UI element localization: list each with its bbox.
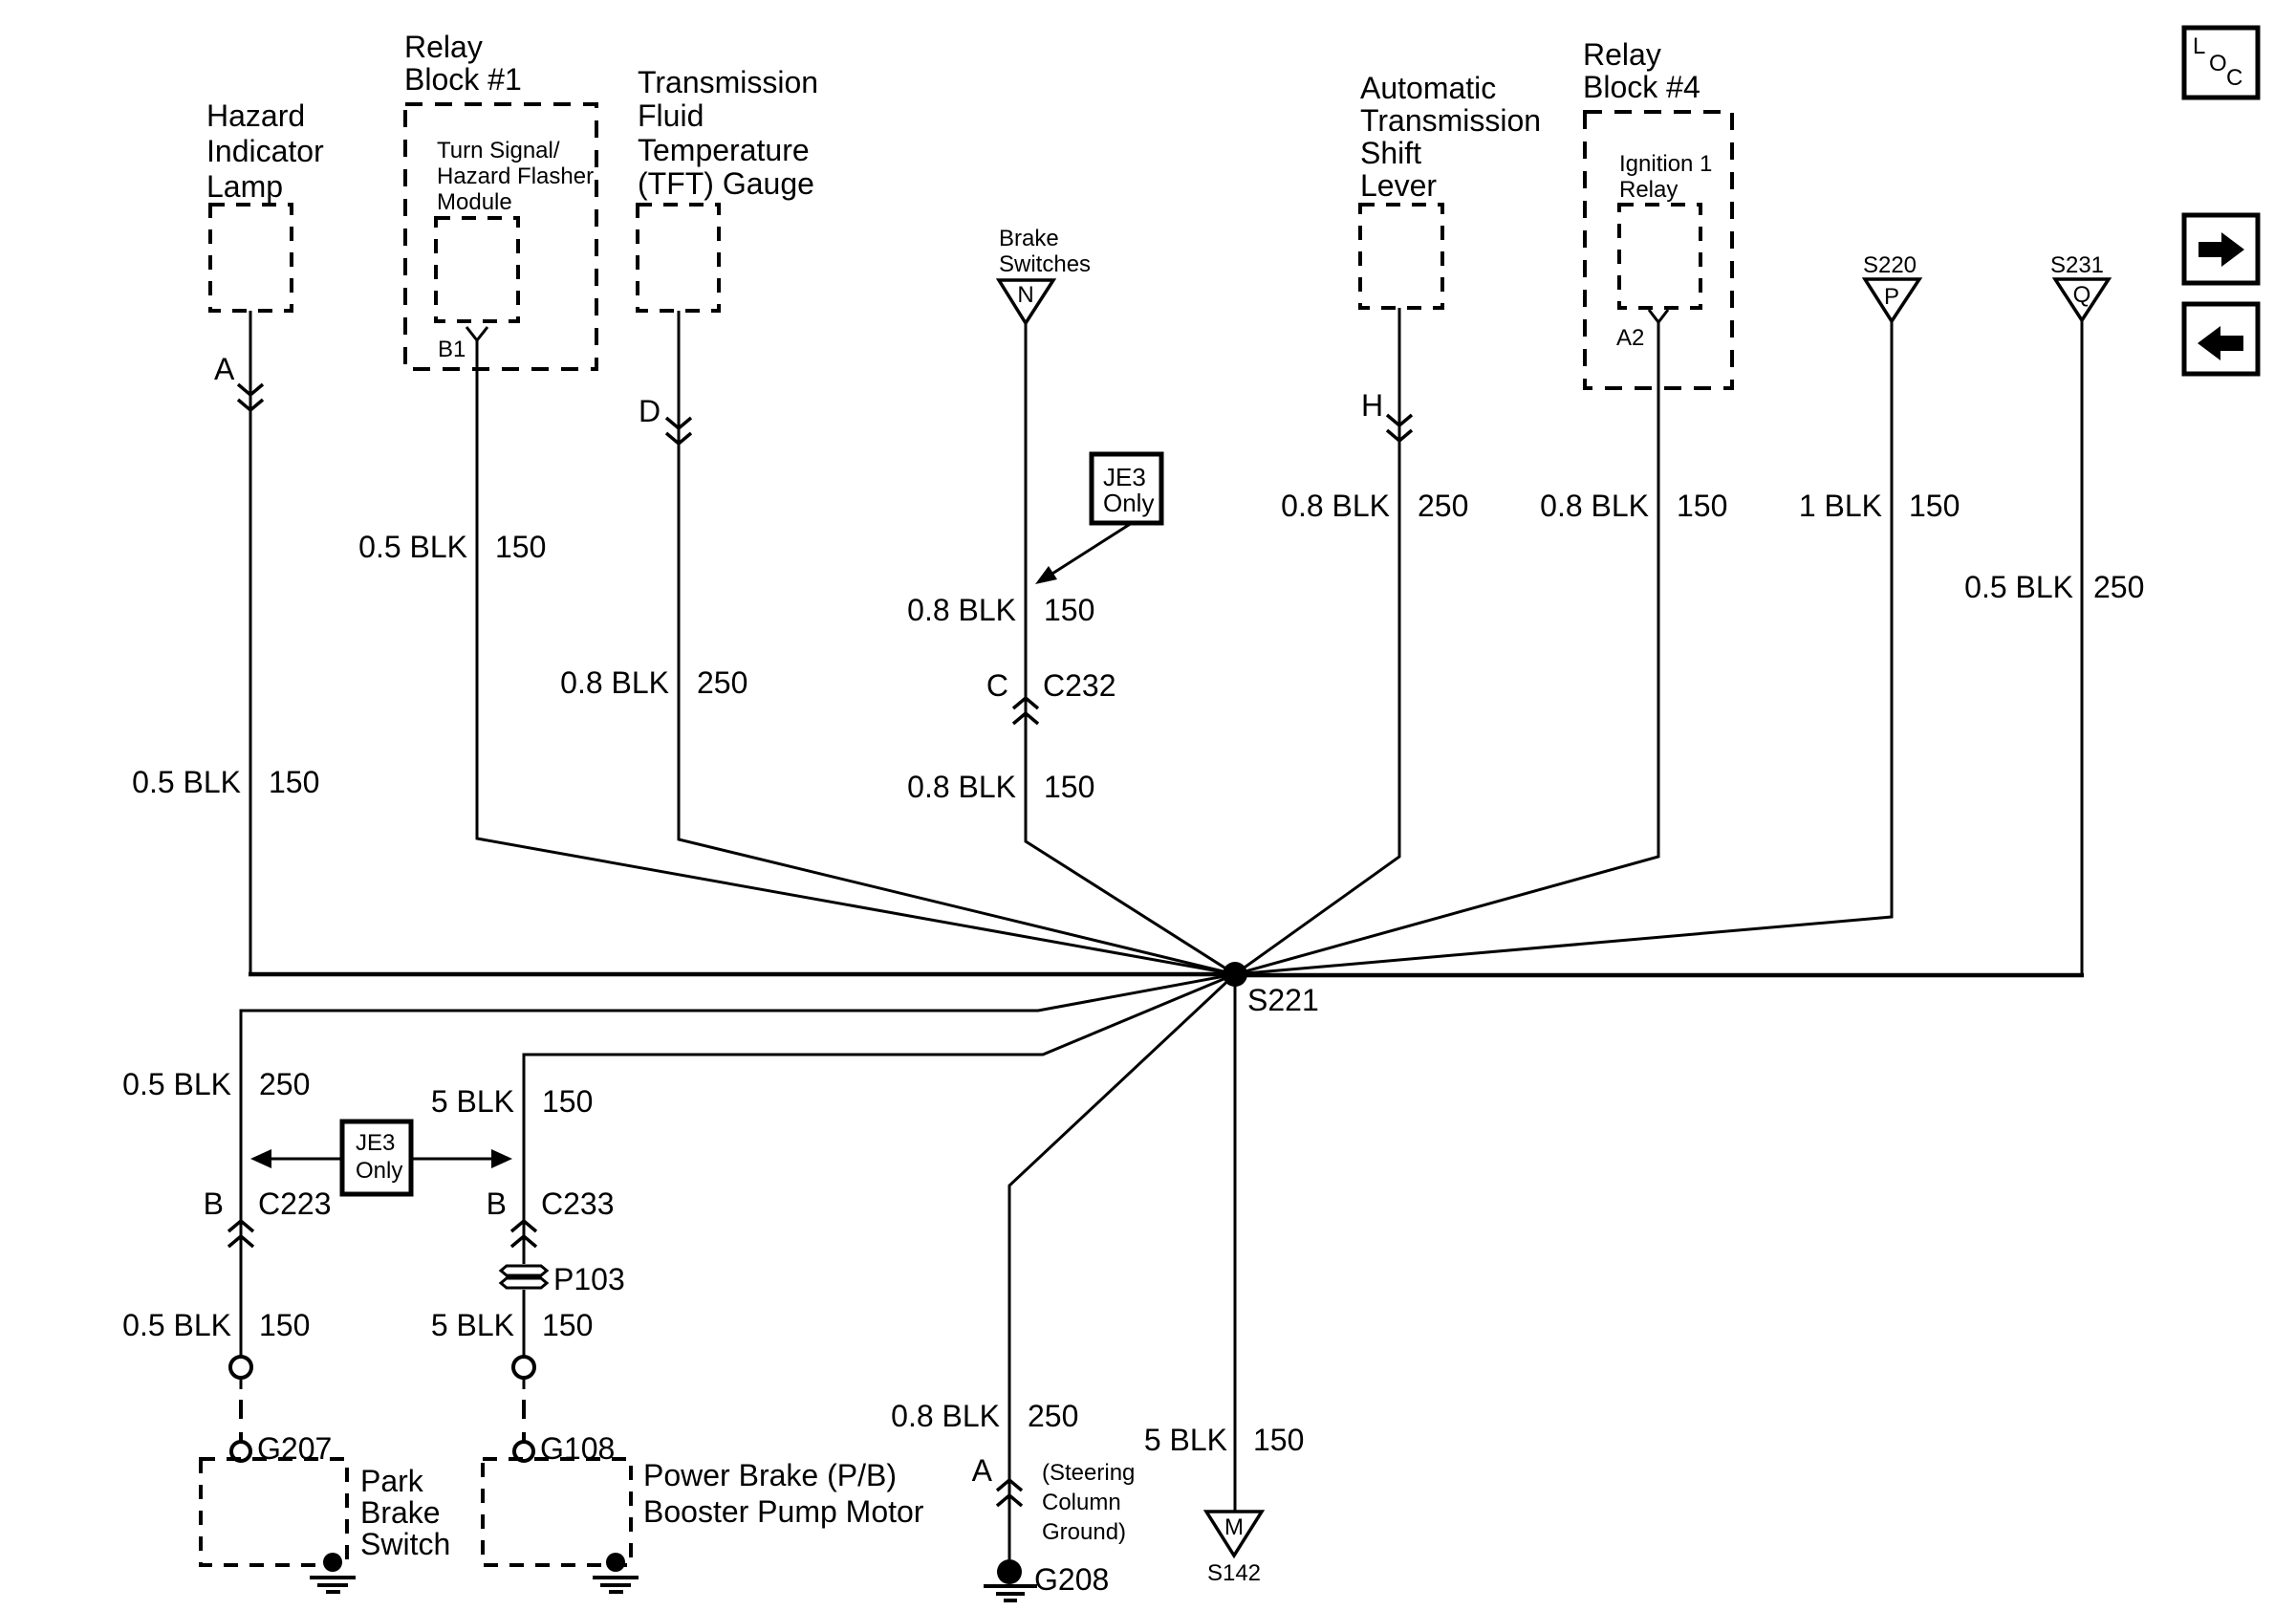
brake switches label <box>999 226 1091 277</box>
wire label 0.5 BLK 150 B1 <box>358 530 546 564</box>
svg-text:Transmission: Transmission <box>638 65 818 99</box>
svg-text:250: 250 <box>259 1067 310 1101</box>
svg-text:Transmission: Transmission <box>1360 103 1541 138</box>
svg-text:1 BLK: 1 BLK <box>1799 489 1882 523</box>
svg-text:Relay: Relay <box>404 30 483 64</box>
terminal circle C223 <box>230 1357 251 1378</box>
connector D marker <box>666 418 691 444</box>
svg-text:G208: G208 <box>1034 1562 1109 1597</box>
svg-text:C: C <box>2226 65 2242 91</box>
svg-text:B: B <box>204 1186 224 1221</box>
connector H marker <box>1387 415 1412 441</box>
JE3 double arrow <box>250 1149 512 1168</box>
connector C223 <box>204 1186 332 1247</box>
wire label 0.8 BLK 150 brake upper <box>907 593 1094 627</box>
svg-text:Block #4: Block #4 <box>1583 70 1700 104</box>
svg-text:0.8 BLK: 0.8 BLK <box>1540 489 1649 523</box>
svg-text:Relay: Relay <box>1619 177 1678 203</box>
JE3 only box upper <box>1092 454 1161 523</box>
wire S221 to S142 <box>1234 974 1237 1513</box>
svg-text:Lamp: Lamp <box>206 169 283 204</box>
svg-text:S220: S220 <box>1863 252 1917 278</box>
svg-text:G207: G207 <box>257 1431 332 1466</box>
triangle P <box>1865 279 1919 321</box>
connector C233 <box>487 1186 615 1247</box>
svg-text:Switch: Switch <box>360 1527 450 1561</box>
triangle N <box>999 280 1053 323</box>
wire label 0.8 BLK 150 relay4 <box>1540 489 1727 523</box>
wire label 0.8 BLK 250 shift <box>1281 489 1468 523</box>
svg-text:0.5 BLK: 0.5 BLK <box>132 765 241 799</box>
svg-text:0.8 BLK: 0.8 BLK <box>1281 489 1390 523</box>
svg-text:Module: Module <box>437 189 512 215</box>
left arrow box <box>2184 304 2258 374</box>
triangle Q <box>2055 279 2109 320</box>
terminal circle G207 <box>231 1442 250 1461</box>
wire label 5 BLK 150 S142 <box>1144 1423 1305 1457</box>
terminal circle G108 <box>514 1442 533 1461</box>
park brake switch label <box>360 1464 450 1561</box>
pin B1 terminal <box>466 327 487 340</box>
connector A marker <box>238 384 263 410</box>
svg-text:L: L <box>2193 33 2205 59</box>
wire S221 to steering column ground <box>1009 974 1235 1559</box>
wire S221 to C223 chain <box>241 974 1235 1357</box>
shift lever title <box>1360 71 1541 203</box>
svg-text:M: M <box>1224 1514 1244 1540</box>
svg-text:P103: P103 <box>553 1262 625 1296</box>
svg-text:Block #1: Block #1 <box>404 62 522 97</box>
ground power brake <box>593 1553 639 1592</box>
svg-text:0.8 BLK: 0.8 BLK <box>560 665 669 700</box>
svg-text:0.5 BLK: 0.5 BLK <box>358 530 467 564</box>
JE3 arrow <box>1035 523 1132 584</box>
pin A2 terminal <box>1649 310 1668 322</box>
svg-text:Only: Only <box>1103 489 1154 517</box>
svg-text:Relay: Relay <box>1583 37 1661 72</box>
svg-text:B: B <box>487 1186 507 1221</box>
svg-text:Brake: Brake <box>360 1495 441 1530</box>
svg-text:C223: C223 <box>258 1186 332 1221</box>
wire label 0.5 BLK 150 hazard <box>132 765 319 799</box>
svg-text:Hazard: Hazard <box>206 98 305 133</box>
svg-text:Turn Signal/: Turn Signal/ <box>437 138 560 163</box>
wire hazard lamp down <box>249 311 252 974</box>
stub and dashed wire to G207 <box>240 1378 243 1389</box>
connector A steering marker <box>997 1480 1022 1506</box>
wire P to S221 <box>1235 321 1892 974</box>
svg-text:C: C <box>986 668 1008 703</box>
svg-text:Power Brake (P/B): Power Brake (P/B) <box>643 1458 897 1492</box>
svg-text:O: O <box>2209 51 2227 76</box>
svg-text:5 BLK: 5 BLK <box>431 1308 514 1342</box>
svg-text:5 BLK: 5 BLK <box>431 1084 514 1119</box>
turn signal module box <box>436 218 518 321</box>
svg-text:A: A <box>972 1453 993 1488</box>
wire N to S221 <box>1026 323 1235 974</box>
steering column ground note <box>1042 1460 1135 1545</box>
svg-text:Only: Only <box>356 1158 402 1184</box>
svg-text:Lever: Lever <box>1360 168 1437 203</box>
wire S221 to C233 chain <box>524 974 1235 1357</box>
wire main horizontal right to S221 <box>1235 973 2084 978</box>
ground G208 <box>984 1559 1037 1600</box>
wire D to S221 <box>679 311 1235 974</box>
svg-text:250: 250 <box>697 665 747 700</box>
wire label 0.8 BLK 250 steering <box>891 1399 1078 1433</box>
svg-text:Hazard Flasher: Hazard Flasher <box>437 163 594 189</box>
svg-text:150: 150 <box>542 1308 593 1342</box>
svg-text:A: A <box>214 352 235 386</box>
ignition relay box <box>1619 205 1700 308</box>
svg-text:0.8 BLK: 0.8 BLK <box>907 593 1016 627</box>
svg-text:(Steering: (Steering <box>1042 1460 1135 1486</box>
svg-text:N: N <box>1017 282 1033 308</box>
svg-text:Ignition 1: Ignition 1 <box>1619 151 1712 177</box>
svg-text:Temperature: Temperature <box>638 133 810 167</box>
power brake booster box <box>483 1459 631 1565</box>
junction S221 <box>1223 962 1319 1017</box>
right arrow box <box>2184 215 2258 283</box>
svg-text:C232: C232 <box>1043 668 1116 703</box>
svg-text:JE3: JE3 <box>356 1130 395 1156</box>
svg-text:H: H <box>1361 388 1383 423</box>
svg-text:Q: Q <box>2073 282 2091 308</box>
svg-text:0.5 BLK: 0.5 BLK <box>122 1067 231 1101</box>
power brake booster label <box>643 1458 924 1529</box>
ignition 1 relay label <box>1619 151 1712 203</box>
svg-text:S221: S221 <box>1247 983 1319 1017</box>
wire label 5 BLK 150 C233 <box>431 1084 594 1119</box>
svg-text:150: 150 <box>1253 1423 1304 1457</box>
relay block 4 outer box <box>1585 112 1732 388</box>
svg-text:C233: C233 <box>541 1186 615 1221</box>
wire label 0.5 BLK 250 C223 <box>122 1067 310 1101</box>
svg-text:JE3: JE3 <box>1103 463 1146 491</box>
svg-text:A2: A2 <box>1616 325 1644 351</box>
svg-text:5 BLK: 5 BLK <box>1144 1423 1227 1457</box>
svg-text:150: 150 <box>495 530 546 564</box>
svg-text:250: 250 <box>1418 489 1468 523</box>
JE3 only box lower <box>342 1121 411 1194</box>
svg-text:Switches: Switches <box>999 251 1091 277</box>
svg-text:150: 150 <box>1044 770 1094 804</box>
svg-text:Indicator: Indicator <box>206 134 324 168</box>
svg-text:Fluid: Fluid <box>638 98 704 133</box>
svg-text:S142: S142 <box>1207 1560 1261 1586</box>
svg-text:Column: Column <box>1042 1490 1121 1515</box>
wire label 0.5 BLK 250 Q <box>1964 570 2144 604</box>
svg-text:150: 150 <box>542 1084 593 1119</box>
wire A2 to S221 <box>1235 322 1658 974</box>
svg-text:0.8 BLK: 0.8 BLK <box>907 770 1016 804</box>
svg-text:0.8 BLK: 0.8 BLK <box>891 1399 1000 1433</box>
stub and dashed wire to G108 <box>523 1378 526 1389</box>
svg-text:250: 250 <box>2093 570 2144 604</box>
svg-text:150: 150 <box>269 765 319 799</box>
relay block 1 title <box>404 30 522 97</box>
svg-text:Brake: Brake <box>999 226 1059 251</box>
park brake switch box <box>201 1459 347 1565</box>
wire Q down <box>2081 320 2084 973</box>
svg-text:150: 150 <box>1909 489 1960 523</box>
wire label 0.8 BLK 150 brake lower <box>907 770 1094 804</box>
svg-text:S231: S231 <box>2050 252 2104 278</box>
hazard indicator lamp box <box>210 205 292 311</box>
turn signal hazard flasher module label <box>437 138 594 215</box>
svg-text:(TFT) Gauge: (TFT) Gauge <box>638 166 814 201</box>
relay block 1 outer box <box>405 104 596 369</box>
wire label 1 BLK 150 <box>1799 489 1960 523</box>
connector C232 <box>986 668 1116 724</box>
shift lever box <box>1360 205 1442 308</box>
svg-text:150: 150 <box>259 1308 310 1342</box>
svg-text:G108: G108 <box>540 1431 615 1466</box>
ground park brake <box>310 1553 356 1592</box>
svg-text:Park: Park <box>360 1464 424 1498</box>
svg-text:Ground): Ground) <box>1042 1519 1126 1545</box>
svg-text:250: 250 <box>1028 1399 1078 1433</box>
svg-text:0.5 BLK: 0.5 BLK <box>122 1308 231 1342</box>
triangle M <box>1206 1512 1262 1556</box>
TFT gauge box <box>638 205 719 311</box>
wire label 0.8 BLK 250 TFT <box>560 665 747 700</box>
svg-text:150: 150 <box>1044 593 1094 627</box>
hazard indicator lamp label <box>206 98 324 204</box>
terminal circle C233 <box>513 1357 534 1378</box>
svg-text:D: D <box>639 394 661 428</box>
pass-through grommet P103 <box>501 1262 625 1296</box>
svg-text:0.5 BLK: 0.5 BLK <box>1964 570 2073 604</box>
wire main horizontal left to S221 <box>249 972 1235 977</box>
relay block 4 title <box>1583 37 1700 104</box>
wire B1 to S221 <box>477 340 1235 974</box>
wire H to S221 <box>1235 308 1399 974</box>
svg-text:B1: B1 <box>438 337 466 362</box>
svg-text:150: 150 <box>1677 489 1727 523</box>
wire label 5 BLK 150 C233 lower <box>431 1308 594 1342</box>
TFT gauge title <box>638 65 818 201</box>
svg-text:P: P <box>1884 284 1899 310</box>
LOC box <box>2184 28 2258 98</box>
wire label 0.5 BLK 150 C223 <box>122 1308 310 1342</box>
svg-text:Shift: Shift <box>1360 136 1421 170</box>
svg-text:Automatic: Automatic <box>1360 71 1496 105</box>
svg-text:Booster Pump Motor: Booster Pump Motor <box>643 1494 924 1529</box>
